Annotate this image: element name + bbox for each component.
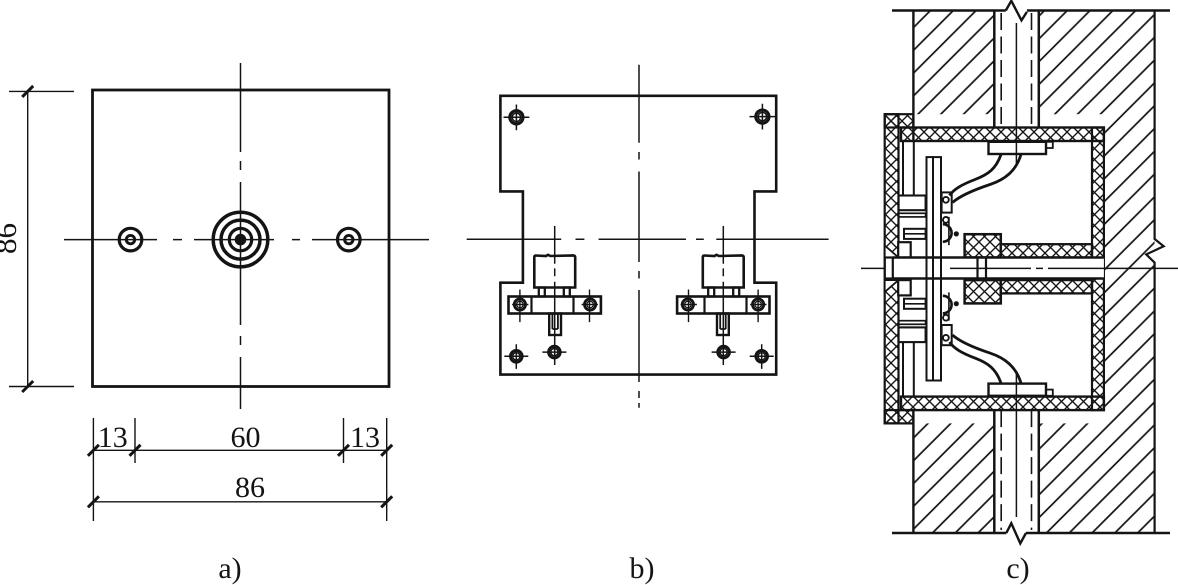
svg-text:60: 60	[231, 421, 261, 454]
svg-text:13: 13	[350, 421, 380, 454]
svg-text:c): c)	[1006, 552, 1029, 585]
svg-text:86: 86	[0, 223, 23, 254]
svg-text:86: 86	[235, 471, 265, 504]
svg-text:a): a)	[218, 552, 241, 585]
svg-text:b): b)	[630, 552, 655, 585]
svg-text:13: 13	[98, 421, 128, 454]
